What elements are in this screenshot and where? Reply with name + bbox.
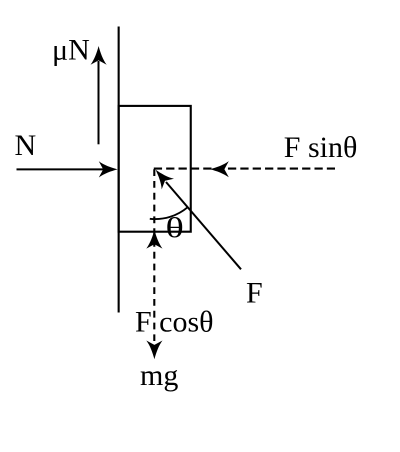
wall line	[118, 27, 120, 313]
angle arc	[150, 207, 188, 219]
down arrowhead (toward mg)	[146, 341, 162, 360]
dashed horizontal component line	[154, 168, 335, 170]
svg-text:F sinθ: F sinθ	[284, 131, 358, 164]
svg-text:θ: θ	[166, 212, 184, 244]
friction arrow muN (up along wall)	[91, 46, 107, 144]
svg-text:N: N	[15, 129, 37, 162]
normal force arrow N (toward wall)	[17, 161, 118, 177]
up arrowhead (F cos component at block bottom)	[146, 230, 162, 249]
svg-text:F: F	[246, 276, 263, 309]
vertical dashed component line	[153, 169, 155, 341]
svg-text:μN: μN	[52, 34, 90, 67]
svg-text:mg: mg	[140, 359, 178, 392]
svg-text:F cosθ: F cosθ	[135, 305, 214, 338]
force arrow F (diagonal, tip at centre of block)	[149, 165, 241, 270]
arrowhead of F sin(theta) (pointing left)	[210, 161, 229, 177]
block (rectangle against wall)	[119, 106, 191, 232]
